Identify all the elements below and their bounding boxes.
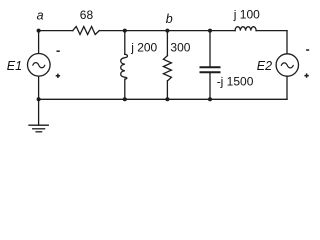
- svg-text:j 200: j 200: [130, 40, 157, 54]
- svg-text:b: b: [166, 12, 173, 26]
- svg-text:a: a: [37, 8, 44, 22]
- svg-text:-j 1500: -j 1500: [217, 75, 254, 89]
- svg-text:j 100: j 100: [233, 8, 260, 22]
- svg-text:E2: E2: [257, 59, 272, 73]
- svg-text:68: 68: [80, 8, 94, 22]
- svg-text:E1: E1: [7, 59, 22, 73]
- svg-text:300: 300: [170, 40, 190, 54]
